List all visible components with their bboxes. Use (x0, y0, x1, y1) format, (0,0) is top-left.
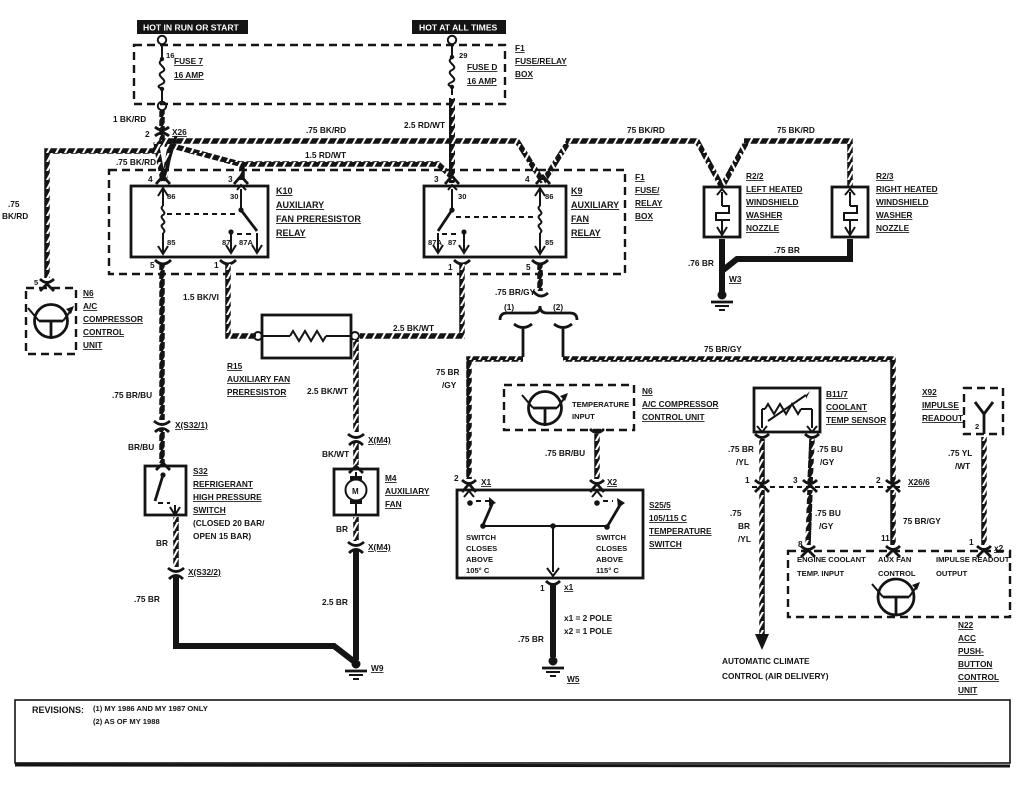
svg-text:SWITCH: SWITCH (596, 533, 626, 542)
svg-text:/YL: /YL (736, 457, 749, 467)
svg-text:.75 YL: .75 YL (948, 448, 972, 458)
svg-text:.75 BU: .75 BU (815, 508, 841, 518)
revision brace (500, 306, 577, 320)
label K9 AUXILIARY FAN RELAY (571, 186, 619, 238)
label IMPULSE READOUT OUTPUT (936, 555, 1010, 578)
svg-text:75 BK/RD: 75 BK/RD (627, 125, 665, 135)
svg-text:2.5 BK/WT: 2.5 BK/WT (307, 386, 348, 396)
svg-text:4: 4 (148, 174, 153, 184)
svg-text:2: 2 (145, 129, 150, 139)
wire .75 BR/GY from K9 pin 5 to revision bracket (537, 264, 543, 291)
label N6 A/C COMPRESSOR CONTROL UNIT (middle) (642, 386, 719, 422)
svg-text:2.5 BR: 2.5 BR (322, 597, 348, 607)
svg-text:5: 5 (150, 260, 155, 270)
svg-text:87A: 87A (239, 238, 253, 247)
svg-text:/GY: /GY (819, 521, 834, 531)
svg-text:115° C: 115° C (596, 566, 619, 575)
svg-text:INPUT: INPUT (572, 412, 595, 421)
svg-text:BUTTON: BUTTON (958, 659, 992, 669)
svg-text:8: 8 (798, 539, 803, 549)
svg-text:SWITCH: SWITCH (649, 539, 682, 549)
svg-text:CONTROL: CONTROL (878, 569, 916, 578)
svg-text:K10: K10 (276, 186, 293, 196)
svg-text:85: 85 (167, 238, 176, 247)
connector X26/6 (dashed line) (752, 486, 900, 488)
K9 pin 3 (434, 174, 459, 184)
svg-text:CLOSES: CLOSES (596, 544, 627, 553)
svg-text:AUXILIARY: AUXILIARY (385, 486, 430, 496)
svg-text:85: 85 (545, 238, 554, 247)
wire 1.5 RD/WT from X26 to K9 pin 3 (165, 144, 452, 177)
svg-text:/GY: /GY (442, 380, 457, 390)
N22 pin 8 (798, 539, 815, 557)
wire label .75 BR /YL (728, 444, 754, 467)
label F1 FUSE/ RELAY BOX (635, 172, 663, 221)
svg-text:/GY: /GY (820, 457, 835, 467)
svg-text:CONTROL UNIT: CONTROL UNIT (642, 412, 705, 422)
N22 pin 11 (881, 533, 900, 557)
svg-text:TEMP. INPUT: TEMP. INPUT (797, 569, 844, 578)
svg-text:29: 29 (459, 51, 467, 60)
fuse F7 (158, 36, 166, 110)
svg-text:HOT IN RUN OR START: HOT IN RUN OR START (143, 23, 240, 33)
wire 2.5 RD/WT from fuse D down to K9 pin 3 (449, 98, 455, 183)
svg-text:READOUT: READOUT (922, 413, 963, 423)
svg-text:IMPULSE READOUT: IMPULSE READOUT (936, 555, 1010, 564)
svg-text:AUXILIARY FAN: AUXILIARY FAN (227, 374, 290, 384)
svg-text:COOLANT: COOLANT (826, 402, 867, 412)
connector X(S32/2) (168, 568, 184, 579)
svg-text:1: 1 (448, 262, 453, 272)
svg-text:BR: BR (156, 538, 168, 548)
svg-text:.75 BK/RD: .75 BK/RD (306, 125, 346, 135)
svg-text:2: 2 (454, 473, 459, 483)
arrow to automatic climate control (755, 634, 769, 650)
connector X(M4) upper (348, 434, 364, 445)
svg-text:CONTROL (AIR DELIVERY): CONTROL (AIR DELIVERY) (722, 671, 829, 681)
svg-text:(1) MY 1986 AND MY 1987 ONLY: (1) MY 1986 AND MY 1987 ONLY (93, 704, 208, 713)
K10 pin 5 (150, 260, 171, 270)
svg-text:(CLOSED 20 BAR/: (CLOSED 20 BAR/ (193, 518, 265, 528)
label AUX FAN CONTROL (878, 555, 916, 578)
svg-text:11: 11 (881, 533, 890, 543)
label N6 A/C COMPRESSOR CONTROL UNIT (83, 288, 143, 350)
wire .75 BU/GY from X26/6 to N22 pin 8 (808, 490, 810, 545)
connector X(M4) lower (348, 542, 364, 553)
svg-text:.75 BR/BU: .75 BR/BU (545, 448, 585, 458)
wire BR from S32 down to X(S32/2) (173, 517, 179, 567)
svg-text:1: 1 (214, 260, 219, 270)
svg-text:1 BK/RD: 1 BK/RD (113, 114, 146, 124)
svg-text:R15: R15 (227, 361, 243, 371)
svg-text:3: 3 (793, 475, 798, 485)
K10 pin 3 (228, 174, 248, 184)
K9 pin 5 (526, 260, 548, 272)
svg-text:3: 3 (228, 174, 233, 184)
K9 pin 1 (448, 260, 470, 272)
svg-text:WINDSHIELD: WINDSHIELD (876, 197, 929, 207)
wire 75 BR/GY from X26/6 to N22 pin 11 (890, 490, 896, 545)
wire .75 BR from R2/2 to ground W3 (719, 239, 725, 293)
svg-text:BOX: BOX (515, 69, 533, 79)
B11/7 right pin connector (805, 434, 819, 438)
svg-text:RELAY: RELAY (276, 228, 306, 238)
wire 75 BR/GY option2 to X26/6 pin 2 (563, 359, 893, 483)
svg-text:RELAY: RELAY (571, 228, 601, 238)
svg-text:75 BR: 75 BR (436, 367, 460, 377)
N6 pin 5 (34, 278, 54, 287)
svg-text:CONTROL: CONTROL (83, 327, 124, 337)
svg-text:.75 BR: .75 BR (728, 444, 754, 454)
svg-text:HOT AT ALL TIMES: HOT AT ALL TIMES (419, 23, 498, 33)
svg-text:BR: BR (738, 521, 750, 531)
connector X1 (462, 480, 476, 492)
svg-text:N6: N6 (83, 288, 94, 298)
temperature switch S25/5 (457, 490, 643, 578)
label R15 AUXILIARY FAN PRERESISTOR (227, 361, 290, 397)
fuse FD (448, 36, 456, 95)
wire .75 BR from R2/3 to W3 (722, 239, 850, 271)
X26/6 pin 1 (745, 475, 769, 492)
svg-text:87A: 87A (428, 238, 442, 247)
svg-text:NOZZLE: NOZZLE (746, 223, 780, 233)
svg-text:F1: F1 (515, 43, 525, 53)
wire .75 BK/RD main horizontal to K9 pin 4 and washer nozzles (162, 141, 850, 187)
connector X(S32/1) (154, 421, 170, 432)
svg-text:F1: F1 (635, 172, 645, 182)
svg-text:UNIT: UNIT (83, 340, 102, 350)
svg-text:R2/2: R2/2 (746, 171, 764, 181)
svg-text:A/C COMPRESSOR: A/C COMPRESSOR (642, 399, 719, 409)
svg-text:X1: X1 (481, 477, 492, 487)
svg-text:(2) AS OF MY 1988: (2) AS OF MY 1988 (93, 717, 160, 726)
svg-text:TEMPERATURE: TEMPERATURE (649, 526, 712, 536)
svg-text:FUSE 7: FUSE 7 (174, 56, 203, 66)
svg-text:(2): (2) (553, 302, 563, 312)
wire 1 BK/RD from fuse F7 down to node 2/X26 (159, 110, 165, 140)
svg-text:N22: N22 (958, 620, 974, 630)
svg-text:RIGHT HEATED: RIGHT HEATED (876, 184, 938, 194)
svg-text:87: 87 (448, 238, 456, 247)
svg-text:16 AMP: 16 AMP (174, 70, 204, 80)
svg-text:REVISIONS:: REVISIONS: (32, 705, 84, 715)
svg-text:BOX: BOX (635, 211, 653, 221)
svg-text:2.5 BK/WT: 2.5 BK/WT (393, 323, 434, 333)
svg-text:2: 2 (975, 422, 979, 431)
svg-text:.75 BK/RD: .75 BK/RD (116, 157, 156, 167)
svg-text:X(S32/1): X(S32/1) (175, 420, 208, 430)
svg-text:.75 BU: .75 BU (817, 444, 843, 454)
svg-text:1.5 RD/WT: 1.5 RD/WT (305, 150, 346, 160)
svg-text:OPEN 15 BAR): OPEN 15 BAR) (193, 531, 251, 541)
connector X26 (155, 127, 169, 136)
svg-text:1: 1 (969, 537, 974, 547)
svg-text:R2/3: R2/3 (876, 171, 894, 181)
svg-text:x2 = 1 POLE: x2 = 1 POLE (564, 626, 613, 636)
svg-text:/WT: /WT (955, 461, 970, 471)
wire BK/WT from X(M4) to M4 (353, 443, 359, 465)
label AUTOMATIC CLIMATE CONTROL (AIR DELIVERY) (722, 656, 829, 681)
label FUSE D 16 AMP (467, 62, 497, 86)
svg-text:HIGH PRESSURE: HIGH PRESSURE (193, 492, 262, 502)
ground W9 (345, 660, 367, 680)
wire 2.5 BR from X(M4) to ground W9 (353, 551, 359, 660)
svg-text:REFRIGERANT: REFRIGERANT (193, 479, 253, 489)
svg-text:X(M4): X(M4) (368, 435, 391, 445)
svg-text:86: 86 (167, 192, 175, 201)
svg-text:.75 BR: .75 BR (134, 594, 160, 604)
A/C compressor control unit N6 (dashed box) (26, 284, 76, 354)
svg-text:W5: W5 (567, 674, 580, 684)
label R2/3 RIGHT HEATED WINDSHIELD WASHER NOZZLE (876, 171, 938, 233)
label X92 IMPULSE READOUT (922, 387, 963, 423)
svg-text:CONTROL: CONTROL (958, 672, 999, 682)
label S25/5 105/115 C TEMPERATURE SWITCH (649, 500, 712, 549)
svg-text:PUSH-: PUSH- (958, 646, 984, 656)
svg-text:.75 BR: .75 BR (774, 245, 800, 255)
revisions box (15, 700, 1010, 766)
svg-text:.75 BR: .75 BR (518, 634, 544, 644)
svg-text:1: 1 (745, 475, 750, 485)
svg-text:NOZZLE: NOZZLE (876, 223, 910, 233)
label B11/7 COOLANT TEMP SENSOR (826, 389, 886, 425)
svg-text:ABOVE: ABOVE (466, 555, 493, 564)
svg-text:N6: N6 (642, 386, 653, 396)
wire V into K10 pin 4 (156, 136, 176, 181)
K10 pin 1 (214, 260, 236, 270)
wire BR from M4 down to X(M4) lower (353, 517, 359, 541)
svg-text:BK/WT: BK/WT (322, 449, 349, 459)
B11/7 left pin connector (755, 434, 769, 438)
svg-text:.76 BR: .76 BR (688, 258, 714, 268)
relay K10 (131, 185, 268, 257)
svg-text:WASHER: WASHER (746, 210, 782, 220)
svg-text:W9: W9 (371, 663, 384, 673)
K9 pin5 curl connector (533, 291, 548, 296)
wire 2.5 BK/WT from R15 to K9 pin 1 (360, 264, 462, 336)
impulse readout X92 (dashed box) (964, 388, 1003, 434)
transistor in N22 (872, 579, 920, 616)
left heated washer nozzle R2/2 (704, 187, 740, 237)
svg-text:ABOVE: ABOVE (596, 555, 623, 564)
wire 2.5 BK/WT from R15 junction down to X(M4) (353, 340, 359, 432)
svg-text:X26/6: X26/6 (908, 477, 930, 487)
svg-text:W3: W3 (729, 274, 742, 284)
svg-text:FAN: FAN (571, 214, 589, 224)
svg-text:(1): (1) (504, 302, 514, 312)
svg-text:4: 4 (525, 174, 530, 184)
svg-text:AUTOMATIC CLIMATE: AUTOMATIC CLIMATE (722, 656, 810, 666)
power label HOT AT ALL TIMES (412, 20, 506, 34)
wire label .75 BK/RD (vertical two lines) (2, 199, 28, 221)
label TEMPERATURE INPUT (572, 400, 629, 421)
svg-text:IMPULSE: IMPULSE (922, 400, 959, 410)
svg-text:TEMP SENSOR: TEMP SENSOR (826, 415, 886, 425)
svg-text:B11/7: B11/7 (826, 389, 848, 399)
svg-text:2: 2 (876, 475, 881, 485)
fuse/relay box F1 (dashed) (134, 45, 505, 104)
svg-text:.75: .75 (730, 508, 742, 518)
svg-text:x1 = 2 POLE: x1 = 2 POLE (564, 613, 613, 623)
svg-text:FUSE/RELAY: FUSE/RELAY (515, 56, 567, 66)
wire .75 BK/RD left branch to N6 (47, 141, 162, 278)
right heated washer nozzle R2/3 (832, 187, 868, 237)
svg-text:105/115 C: 105/115 C (649, 513, 687, 523)
label F1 FUSE/RELAY BOX (515, 43, 567, 79)
svg-text:x1: x1 (564, 582, 574, 592)
svg-text:.75 BR/BU: .75 BR/BU (112, 390, 152, 400)
label S32 REFRIGERANT HIGH PRESSURE SWITCH (193, 466, 265, 541)
wire .75 BR/YL from B11/7 to X26/6 pin 1 (759, 439, 765, 483)
svg-text:BR: BR (336, 524, 348, 534)
svg-text:M4: M4 (385, 473, 397, 483)
svg-text:AUX FAN: AUX FAN (878, 555, 911, 564)
svg-text:75 BR/GY: 75 BR/GY (903, 516, 941, 526)
svg-text:30: 30 (458, 192, 466, 201)
svg-text:87: 87 (222, 238, 230, 247)
wire 75 BR/GY option1 to X1 (469, 359, 523, 479)
svg-text:30: 30 (230, 192, 238, 201)
X26/6 pin 3 (793, 475, 817, 492)
wire stub 1.5 RD/WT to K10 pin 3 (239, 162, 245, 180)
svg-text:FUSE D: FUSE D (467, 62, 497, 72)
connector option 2 (554, 324, 572, 357)
wire label .75 BU /GY (817, 444, 843, 467)
svg-text:FAN PRERESISTOR: FAN PRERESISTOR (276, 214, 361, 224)
svg-text:/YL: /YL (738, 534, 751, 544)
K9 pin 4 (525, 174, 550, 184)
label FUSE 7 16 AMP (174, 56, 204, 80)
svg-text:.75 BR/GY: .75 BR/GY (495, 287, 536, 297)
label R2/2 LEFT HEATED WINDSHIELD WASHER NOZZLE (746, 171, 803, 233)
svg-text:OUTPUT: OUTPUT (936, 569, 968, 578)
connector option 1 (514, 324, 532, 357)
svg-text:X(S32/2): X(S32/2) (188, 567, 221, 577)
wire 1.5 BK/VI from K10 pin 1 down to R15 (228, 264, 256, 336)
K10 pin 4 (148, 174, 170, 184)
svg-text:75 BK/RD: 75 BK/RD (777, 125, 815, 135)
svg-text:5: 5 (526, 262, 531, 272)
svg-text:SWITCH: SWITCH (193, 505, 226, 515)
svg-text:CLOSES: CLOSES (466, 544, 497, 553)
svg-text:LEFT HEATED: LEFT HEATED (746, 184, 803, 194)
svg-text:PRERESISTOR: PRERESISTOR (227, 387, 286, 397)
fuse/relay box F1 around relays (dashed) (109, 170, 625, 274)
wire .75 BR/BU from N6 to X2 (590, 429, 604, 479)
svg-text:.75: .75 (8, 199, 20, 209)
svg-text:M: M (352, 487, 359, 496)
svg-text:TEMPERATURE: TEMPERATURE (572, 400, 629, 409)
wire .75 YL/WT from X92 to N22 (981, 437, 987, 545)
A/C compressor control unit N6 temperature input (dashed box) (504, 385, 634, 430)
svg-text:RELAY: RELAY (635, 198, 663, 208)
svg-text:3: 3 (434, 174, 439, 184)
note x1 = 2 POLE x2 = 1 POLE (564, 613, 613, 636)
svg-text:ENGINE COOLANT: ENGINE COOLANT (797, 555, 866, 564)
wire label .75 BR /YL (lower) (730, 508, 751, 544)
label N22 ACC PUSH-BUTTON CONTROL UNIT (958, 620, 999, 695)
svg-text:AUXILIARY: AUXILIARY (276, 200, 324, 210)
ground W3 (711, 291, 733, 311)
svg-text:SWITCH: SWITCH (466, 533, 496, 542)
N22 pin 1 x2 (969, 537, 1004, 557)
power label HOT IN RUN OR START (137, 20, 248, 34)
ground W5 (542, 657, 564, 677)
coolant temp sensor B11/7 (754, 388, 820, 432)
connector X2 (590, 480, 604, 492)
ACC push button control unit N22 (dashed box) (788, 551, 1010, 617)
svg-text:X26: X26 (172, 127, 187, 137)
svg-text:A/C: A/C (83, 301, 97, 311)
svg-text:x2: x2 (994, 543, 1004, 553)
svg-text:2.5 RD/WT: 2.5 RD/WT (404, 120, 445, 130)
svg-text:FAN: FAN (385, 499, 402, 509)
label SWITCH CLOSES ABOVE 105 C (466, 533, 497, 575)
svg-text:X92: X92 (922, 387, 937, 397)
S25/5 pin 1 connector x1 (540, 581, 574, 593)
svg-text:ACC: ACC (958, 633, 976, 643)
label M4 AUXILIARY FAN (385, 473, 430, 509)
wire .75 BR/BU from K10 pin 5 down to X(S32/1) (159, 264, 165, 420)
svg-text:1: 1 (540, 583, 545, 593)
high pressure switch S32 (145, 463, 186, 515)
svg-text:BR/BU: BR/BU (128, 442, 154, 452)
svg-text:S25/5: S25/5 (649, 500, 671, 510)
wire .75 BR from S25/5 to ground W5 (550, 585, 556, 657)
wire label .75 BU /GY (lower) (815, 508, 841, 531)
label ENGINE COOLANT TEMP. INPUT (797, 555, 866, 578)
svg-text:WASHER: WASHER (876, 210, 912, 220)
label K10 AUXILIARY FAN PRERESISTOR RELAY (276, 186, 361, 238)
svg-text:105° C: 105° C (466, 566, 490, 575)
svg-text:X2: X2 (607, 477, 618, 487)
svg-text:AUXILIARY: AUXILIARY (571, 200, 619, 210)
wire .75 BR from X(S32/2) to ground W9 (176, 577, 356, 663)
X26/6 pin 2 (876, 475, 900, 492)
wire BR/BU from X(S32/1) to S32 (159, 430, 165, 463)
svg-text:WINDSHIELD: WINDSHIELD (746, 197, 799, 207)
svg-text:UNIT: UNIT (958, 685, 977, 695)
svg-text:S32: S32 (193, 466, 208, 476)
svg-text:K9: K9 (571, 186, 583, 196)
auxiliary fan motor M4 (334, 466, 378, 515)
wire label .75 YL /WT (948, 448, 972, 471)
label SWITCH CLOSES ABOVE 115 C (596, 533, 627, 575)
relay K9 (424, 185, 566, 257)
svg-text:86: 86 (545, 192, 553, 201)
svg-text:1.5 BK/VI: 1.5 BK/VI (183, 292, 219, 302)
svg-text:FUSE/: FUSE/ (635, 185, 660, 195)
svg-text:16 AMP: 16 AMP (467, 76, 497, 86)
svg-text:X(M4): X(M4) (368, 542, 391, 552)
auxiliary fan preresistor R15 (254, 315, 359, 358)
wire .75 BU/GY from B11/7 to X26/6 pin 3 (810, 439, 812, 483)
svg-text:COMPRESSOR: COMPRESSOR (83, 314, 143, 324)
svg-text:BK/RD: BK/RD (2, 211, 28, 221)
svg-text:75 BR/GY: 75 BR/GY (704, 344, 742, 354)
wire label 75 BR /GY (two lines) (436, 367, 460, 390)
wire .75 BR/YL from X26/6 to automatic climate control (759, 490, 765, 638)
